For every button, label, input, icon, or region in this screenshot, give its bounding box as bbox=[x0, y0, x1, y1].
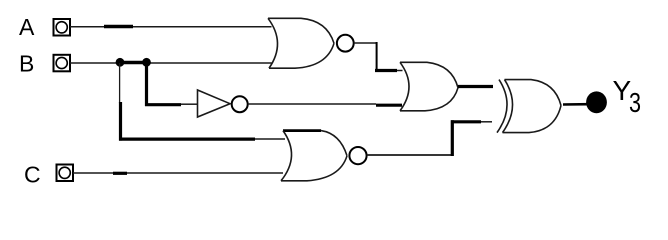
wire B horizontal bbox=[70, 62, 272, 65]
junction dot B1 bbox=[116, 58, 125, 67]
XOR gate U5 body bbox=[503, 80, 562, 133]
svg-text:B: B bbox=[19, 51, 34, 77]
junction dot B2 bbox=[142, 58, 151, 67]
OR gate U3 body (middle) bbox=[400, 62, 458, 111]
NOR gate U1 output bubble bbox=[337, 35, 354, 52]
wire inverter U2 output to OR U3 bbox=[248, 104, 402, 105]
input label B bbox=[19, 51, 34, 77]
inverter U2 triangle bbox=[198, 90, 231, 117]
input label A bbox=[19, 14, 35, 40]
input terminal B bbox=[54, 55, 71, 72]
wire NOR U1 output to OR U3 bbox=[354, 42, 403, 72]
input label C bbox=[24, 162, 41, 188]
NOR gate U4 body (bottom) bbox=[281, 131, 347, 181]
wire B branch 1 vertical to NOR2 bbox=[119, 63, 285, 141]
input terminal A bbox=[54, 19, 71, 36]
output label Y3 bbox=[613, 75, 642, 118]
output node dot Y3 bbox=[586, 91, 607, 113]
NOR gate U4 output bubble bbox=[349, 147, 366, 164]
wire XOR U5 output bbox=[563, 103, 588, 106]
NOR gate U1 body (top) bbox=[268, 18, 334, 68]
svg-text:3: 3 bbox=[629, 87, 641, 118]
wire NOR U4 output to XOR U5 bbox=[367, 120, 492, 156]
inverter U2 output bubble bbox=[232, 96, 248, 112]
wire OR U3 output to XOR U5 bbox=[458, 85, 493, 88]
wire A horizontal bbox=[70, 26, 272, 28]
svg-text:C: C bbox=[24, 162, 41, 188]
wire C horizontal bbox=[73, 172, 283, 174]
XOR gate U5 extra input arc bbox=[497, 80, 507, 133]
wire B branch 2 vertical to inverter bbox=[145, 63, 197, 106]
input terminal C bbox=[57, 165, 74, 182]
svg-text:A: A bbox=[19, 14, 35, 40]
